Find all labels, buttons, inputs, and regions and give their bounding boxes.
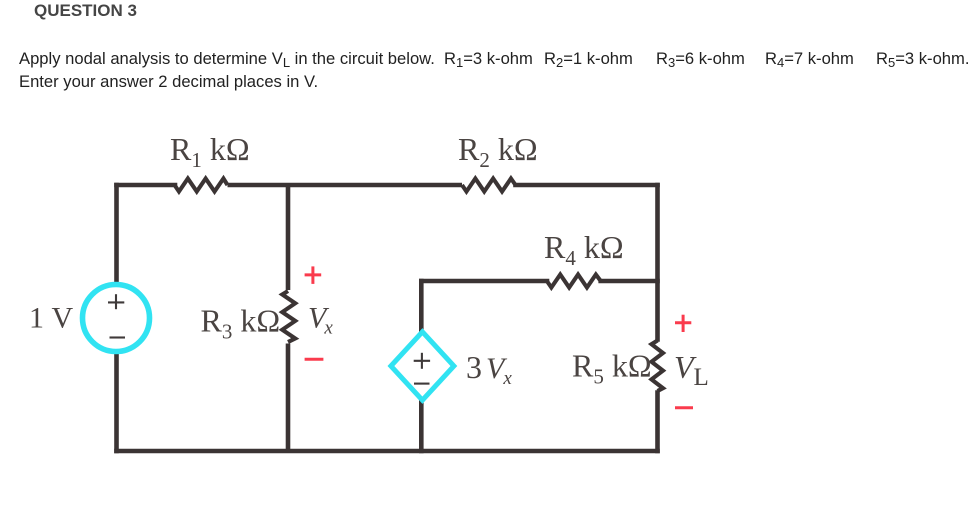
wire bottom rail — [117, 449, 658, 454]
wire R4 rail left — [421, 279, 547, 284]
wire right vertical lower (R5 to bottom rail) — [655, 393, 660, 452]
wire top rail segment left — [117, 183, 176, 188]
resistor R2 — [462, 179, 516, 192]
wire right vertical upper (top rail to R5) — [655, 185, 660, 340]
wire R4 rail right — [601, 279, 658, 284]
voltage source minus sign — [110, 336, 126, 338]
dependent source plus sign — [414, 353, 430, 369]
resistor R4 — [547, 275, 601, 288]
svg-text:R5 kΩ: R5 kΩ — [572, 348, 652, 389]
dependent source 3Vx diamond — [391, 332, 454, 400]
resistor R5 — [652, 341, 664, 392]
svg-text:1 V: 1 V — [29, 302, 74, 335]
red minus polarity mark at VL — [675, 406, 693, 409]
svg-text:R3 kΩ: R3 kΩ — [201, 303, 281, 344]
svg-text:VL: VL — [674, 349, 709, 391]
red plus polarity mark at VL — [675, 315, 691, 332]
wire left vertical upper (top rail to source) — [114, 185, 119, 286]
voltage source plus sign — [108, 294, 124, 309]
svg-text:R2 kΩ: R2 kΩ — [458, 131, 538, 172]
svg-text:R1 kΩ: R1 kΩ — [170, 131, 250, 172]
wire middle vertical lower (R3 to bottom rail) — [286, 344, 291, 452]
svg-text:R4 kΩ: R4 kΩ — [544, 229, 624, 270]
svg-text:3Vx: 3Vx — [466, 349, 512, 389]
wire top rail segment middle — [228, 183, 463, 188]
wire left vertical lower (source to bottom rail) — [114, 351, 119, 451]
red minus polarity mark at Vx — [305, 358, 324, 361]
red plus polarity mark at Vx — [305, 266, 322, 284]
wire top rail segment right — [516, 183, 658, 188]
svg-text:Vx: Vx — [308, 302, 333, 339]
wire inner vertical above dependent source — [419, 281, 424, 334]
resistor R3 — [282, 291, 295, 342]
voltage source V1 circle — [83, 285, 150, 352]
wire middle vertical upper (top rail to R3) — [286, 185, 291, 290]
dependent source minus sign — [414, 383, 430, 385]
resistor R1 — [175, 179, 228, 192]
wire inner vertical below dependent source — [419, 398, 424, 451]
